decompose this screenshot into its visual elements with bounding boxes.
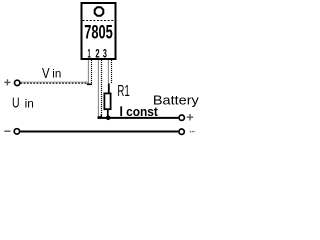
wire bottom rail from input - to battery - <box>20 131 178 133</box>
svg-text:in: in <box>52 67 61 81</box>
svg-text:7805: 7805 <box>84 22 113 44</box>
battery - sign <box>190 131 195 133</box>
input + terminal <box>15 80 20 85</box>
input + sign <box>4 79 10 85</box>
wire pin 2 corner to node <box>98 116 102 119</box>
input - sign <box>4 130 10 132</box>
U1 mounting hole <box>95 7 104 16</box>
battery + terminal <box>179 115 184 120</box>
wire pin 3 to resistor R1 <box>108 84 110 94</box>
U1 tab separator dashed line <box>83 20 115 22</box>
junction node dot <box>106 116 111 121</box>
svg-text:Battery: Battery <box>153 92 200 107</box>
svg-text:in: in <box>25 96 34 110</box>
label Battery <box>153 92 200 107</box>
U1 value label 7805 <box>84 22 113 44</box>
input - terminal <box>14 129 19 134</box>
wire output node to battery + <box>98 117 179 119</box>
wire R1 bottom lead <box>107 110 109 117</box>
label V in <box>42 65 61 82</box>
battery - terminal <box>179 129 184 134</box>
resistor R1 body <box>104 93 110 109</box>
label U in <box>12 95 34 112</box>
U1 pin number 2 <box>95 48 99 60</box>
battery + sign <box>187 114 193 120</box>
svg-text:V: V <box>42 65 50 82</box>
svg-text:1: 1 <box>88 48 91 60</box>
regulator U1 7805 package body <box>82 3 116 59</box>
wire Vin dashed from + input terminal to pin 1 <box>21 82 93 84</box>
svg-text:U: U <box>12 95 20 112</box>
R1 label <box>117 83 129 100</box>
U1 pin 2 lead (hollow dotted) <box>98 60 101 118</box>
svg-text:3: 3 <box>103 48 107 60</box>
U1 pin number 3 <box>103 48 107 60</box>
U1 pin 1 lead (hollow dotted) <box>88 60 91 84</box>
label I const <box>120 104 158 119</box>
svg-text:2: 2 <box>95 48 99 60</box>
U1 pin 3 lead (hollow dotted) <box>108 60 111 84</box>
U1 pin number 1 <box>88 48 91 60</box>
svg-text:R1: R1 <box>117 83 129 100</box>
